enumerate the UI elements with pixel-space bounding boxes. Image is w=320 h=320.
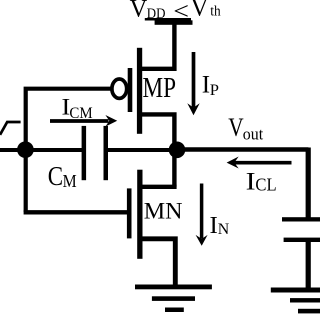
svg-text:V: V (130, 0, 148, 22)
svg-text:CL: CL (255, 175, 276, 195)
node input dot (17, 141, 34, 158)
svg-text:C: C (48, 161, 63, 191)
ground under MN (135, 285, 212, 313)
svg-text:I: I (246, 167, 256, 196)
capacitor C_L top plate (282, 217, 320, 221)
svg-text:I: I (210, 212, 218, 238)
input step source symbol (0, 122, 21, 135)
wire MN source to ground (142, 239, 175, 287)
svg-text:M: M (63, 171, 77, 191)
node output dot (169, 142, 186, 159)
svg-text:CM: CM (69, 104, 93, 121)
svg-text:N: N (218, 221, 229, 238)
wire C_M right plate to output node (107, 148, 170, 152)
svg-text:P: P (210, 80, 219, 99)
wire output to right corner and down to C_L (176, 147, 308, 151)
svg-text:V: V (191, 0, 209, 22)
label V_out (228, 114, 263, 143)
svg-text:V: V (228, 114, 244, 143)
svg-text:MN: MN (144, 199, 183, 225)
svg-text:out: out (243, 124, 264, 144)
transistor MP gate bar (128, 68, 133, 112)
wire NMOS gate (24, 210, 127, 214)
current arrow I_P (187, 52, 219, 115)
ground under C_L (271, 288, 320, 314)
label VDD less-than Vth (130, 0, 221, 25)
wire MP drain to output node (140, 114, 175, 186)
wire C_L bottom plate to ground (306, 240, 311, 290)
current arrow I_N (196, 184, 230, 246)
current arrow I_CM (50, 95, 117, 127)
transistor MP channel bar (137, 48, 142, 134)
capacitor C_L bottom plate (284, 238, 320, 242)
wire PMOS gate (26, 89, 112, 212)
label C_M (48, 161, 77, 191)
transistor MN gate bar (127, 188, 132, 238)
transistor MN channel bar (137, 170, 142, 259)
wire input from left edge (0, 148, 84, 152)
wire MN drain from output node (142, 185, 177, 189)
VDD supply rail (155, 20, 193, 25)
transistor MP bubble (112, 79, 127, 98)
capacitor C_M left plate (82, 126, 87, 180)
current arrow I_CL (227, 157, 292, 196)
capacitor C_M right plate (104, 126, 109, 180)
svg-text:th: th (210, 3, 220, 19)
wire VDD stem to MP source (140, 24, 175, 69)
svg-text:MP: MP (143, 72, 177, 104)
